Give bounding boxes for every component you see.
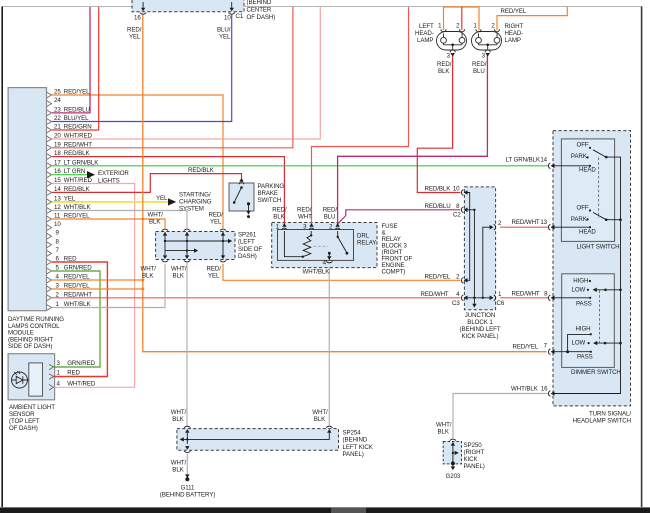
- module pin chevrons 25..1: [47, 92, 52, 310]
- svg-text:BLK: BLK: [273, 214, 285, 221]
- bottom scrollbar thumb: [331, 507, 366, 513]
- left headlamp bulbs: [441, 37, 447, 43]
- ground G111: [185, 474, 189, 478]
- svg-text:RED/BLU: RED/BLU: [425, 203, 451, 210]
- svg-text:WHT/: WHT/: [171, 266, 187, 273]
- junction block C2 pin 8 connector: [461, 207, 467, 213]
- DRL relay switch blade: [337, 236, 339, 238]
- fuse & relay block 3 outer dashed box: [272, 223, 377, 268]
- junction block C2 pin 10 connector: [461, 190, 467, 196]
- svg-text:C3: C3: [452, 300, 460, 307]
- wire RED/WHT module pin 2 to junction block C3 pin 4: [52, 297, 461, 299]
- svg-text:LT GRN: LT GRN: [64, 168, 85, 175]
- dimmer switch inner box: [562, 274, 615, 368]
- svg-text:LAMP: LAMP: [417, 37, 433, 44]
- wire RED/WHT top of page to DRL relay pin 3: [312, 7, 409, 226]
- dimmer pin 16 connector: [548, 391, 554, 397]
- splice SP250 box: [443, 442, 461, 464]
- junction dot RED/YEL at pin 3: [141, 288, 144, 291]
- svg-text:BLK: BLK: [172, 416, 184, 423]
- light switch pin 14 connector: [548, 163, 554, 169]
- svg-text:WHT/RED: WHT/RED: [64, 177, 93, 184]
- svg-text:KICK PANEL): KICK PANEL): [462, 333, 499, 340]
- svg-text:RED/: RED/: [127, 27, 142, 34]
- wire RED module pin 6 to ambient light sensor pin 1: [52, 262, 107, 377]
- left headlamp pin 3 connector: [450, 50, 455, 53]
- wire WHT/BLK DRL relay pin 4 to SP254: [328, 267, 330, 426]
- svg-text:RED/: RED/: [297, 207, 312, 214]
- svg-text:GRN/RED: GRN/RED: [67, 360, 95, 367]
- svg-text:SYSTEM: SYSTEM: [179, 206, 204, 213]
- svg-text:WHT: WHT: [298, 214, 312, 221]
- svg-text:HIGH: HIGH: [573, 278, 588, 285]
- svg-text:RED: RED: [67, 370, 80, 377]
- junction block internal down arrow: [473, 298, 475, 304]
- svg-text:(BEHIND LEFT: (BEHIND LEFT: [459, 326, 500, 333]
- svg-text:PASS: PASS: [576, 301, 592, 308]
- starting/charging system arrow: [168, 198, 176, 205]
- junction block 1 dashed box: [464, 187, 495, 310]
- svg-text:21: 21: [54, 124, 61, 131]
- right headlamp pin 3 connector: [485, 50, 490, 53]
- svg-text:BLU/YEL: BLU/YEL: [64, 115, 89, 122]
- svg-text:13: 13: [54, 195, 61, 202]
- svg-text:STARTING/: STARTING/: [179, 192, 211, 199]
- svg-text:COMPT): COMPT): [382, 269, 406, 276]
- wire RED/YEL module pin 4 joining C1-16 vertical: [52, 279, 143, 281]
- svg-text:BLK: BLK: [142, 273, 154, 280]
- light switch group 1 contacts: [589, 147, 591, 149]
- svg-text:25: 25: [54, 89, 61, 96]
- svg-text:WHT/RED: WHT/RED: [67, 381, 96, 388]
- wire RED/WHT junction block C6 pin 2 to light switch pin 13: [500, 226, 548, 228]
- DRL relay coil circuit: [284, 231, 302, 257]
- svg-text:RED/BLK: RED/BLK: [64, 150, 91, 157]
- wire LT GRN module pin 16 to exterior lights arrow: [52, 174, 87, 176]
- svg-text:RED/: RED/: [472, 61, 487, 68]
- svg-text:RED/BLK: RED/BLK: [425, 186, 452, 193]
- page right border: [641, 7, 643, 508]
- svg-text:DASH): DASH): [238, 253, 257, 260]
- svg-text:OFF: OFF: [577, 142, 589, 149]
- wire RED/YEL module pin 11 to SP261 top pin 1: [52, 219, 165, 228]
- svg-text:18: 18: [54, 150, 61, 157]
- wire RED/WHT junction block C6 pin 1 to dimmer switch pin 8: [500, 297, 548, 299]
- svg-text:11: 11: [54, 213, 61, 220]
- ground G203: [451, 461, 455, 465]
- svg-text:RED/WHT: RED/WHT: [64, 291, 92, 298]
- turn signal / headlamp switch outer dashed box: [553, 131, 631, 406]
- svg-text:RED/: RED/: [323, 207, 338, 214]
- svg-text:C6: C6: [497, 300, 505, 307]
- ambient light sensor inner rectangle: [29, 363, 43, 396]
- svg-text:(BEHIND: (BEHIND: [343, 437, 368, 444]
- svg-text:OF DASH): OF DASH): [9, 425, 38, 432]
- svg-text:RED/: RED/: [437, 61, 452, 68]
- wire RED/YEL connector C1 pin 16 down to dimmer switch pin 7: [143, 15, 547, 352]
- svg-text:BLK: BLK: [172, 467, 184, 474]
- svg-text:PASS: PASS: [577, 354, 593, 361]
- svg-text:WHT/BLK: WHT/BLK: [64, 204, 92, 211]
- svg-text:LEFT KICK: LEFT KICK: [343, 444, 374, 451]
- svg-text:14: 14: [54, 186, 61, 193]
- DRL relay coil zigzag: [303, 235, 311, 256]
- svg-text:RED/YEL: RED/YEL: [64, 213, 90, 220]
- light switch gang dashed line: [598, 158, 600, 219]
- svg-text:YEL: YEL: [156, 195, 168, 202]
- SP261 top pin connectors: [162, 229, 168, 236]
- svg-text:RED/: RED/: [209, 212, 224, 219]
- junction block C3 pin 4 connector: [461, 295, 467, 301]
- junction block internal riser pin10 to pin2: [467, 193, 470, 281]
- wire RED/BLK module pin 14 to parking brake switch: [52, 174, 242, 193]
- DRL relay pin 3 connector: [309, 223, 314, 230]
- dimmer group 2 contacts: [590, 333, 592, 335]
- svg-text:RED/BLU: RED/BLU: [64, 106, 90, 113]
- bottom scrollbar bar: [0, 507, 650, 513]
- svg-text:HEAD-: HEAD-: [415, 30, 434, 37]
- DRL relay actuation dashed link: [314, 245, 329, 247]
- svg-text:12: 12: [54, 204, 61, 211]
- DRL relay pin 1 connector: [282, 223, 287, 230]
- SP261 internal bus B with arrow: [165, 250, 194, 252]
- svg-text:YEL: YEL: [219, 34, 231, 41]
- svg-text:SIDE OF DASH): SIDE OF DASH): [8, 343, 52, 350]
- svg-text:SIDE OF: SIDE OF: [238, 246, 262, 253]
- svg-text:BRAKE: BRAKE: [258, 190, 278, 197]
- svg-text:(BEHIND: (BEHIND: [247, 0, 272, 6]
- svg-text:RED/: RED/: [272, 207, 287, 214]
- svg-text:PANEL): PANEL): [464, 463, 485, 470]
- svg-text:10: 10: [224, 15, 231, 22]
- junction block C6 pin 2 connector: [490, 224, 496, 230]
- left headlamp pin 2 connector: [459, 29, 464, 32]
- splice SP261 box: [156, 232, 235, 260]
- svg-text:24: 24: [54, 97, 61, 104]
- svg-text:LT GRN/BLK: LT GRN/BLK: [506, 157, 541, 164]
- svg-text:20: 20: [54, 133, 61, 140]
- page top border: [2, 6, 642, 8]
- svg-text:RED/YEL: RED/YEL: [501, 8, 527, 15]
- svg-text:OFF: OFF: [577, 205, 589, 212]
- svg-text:(LEFT: (LEFT: [238, 239, 255, 246]
- junction dot RED/YEL at pin 11 crossing: [141, 218, 144, 221]
- connector C1 box (behind center of dash): [132, 0, 244, 12]
- C1 pin 16 connector: [142, 2, 144, 8]
- svg-text:WHT/: WHT/: [141, 266, 157, 273]
- dimmer group 1 contacts: [589, 280, 591, 282]
- DRL relay pin 2 connector: [335, 223, 340, 230]
- left headlamp pin 1 connector: [441, 29, 446, 32]
- wire RED/YEL module pin 3 joining C1-16 vertical: [52, 288, 143, 290]
- wire RED/YEL SP261 bottom pin 3 to junction block C3 pin 2: [223, 264, 461, 281]
- svg-text:CENTER: CENTER: [247, 7, 272, 14]
- svg-text:YEL: YEL: [129, 34, 141, 41]
- svg-text:10: 10: [453, 186, 460, 193]
- wire WHT/RED module pin 15 to ambient light sensor pin 4: [52, 184, 135, 388]
- svg-text:WHT/: WHT/: [148, 212, 164, 219]
- svg-text:(RIGHT: (RIGHT: [464, 449, 485, 456]
- svg-text:PARK: PARK: [571, 153, 588, 160]
- SP254 internal bus with arrow: [184, 433, 330, 440]
- svg-text:YEL: YEL: [210, 219, 222, 226]
- svg-text:HEADLAMP SWITCH: HEADLAMP SWITCH: [573, 418, 631, 425]
- svg-text:14: 14: [540, 157, 547, 164]
- SP254 top pin connectors: [184, 426, 190, 433]
- ambient light sensor pin chevrons: [49, 364, 54, 390]
- svg-text:LT GRN/BLK: LT GRN/BLK: [64, 159, 99, 166]
- svg-text:AMBIENT LIGHT: AMBIENT LIGHT: [9, 404, 55, 411]
- svg-text:C2: C2: [453, 212, 461, 219]
- svg-text:LAMP: LAMP: [505, 37, 521, 44]
- svg-text:23: 23: [54, 106, 61, 113]
- svg-text:YEL: YEL: [208, 273, 220, 280]
- svg-text:G111: G111: [181, 485, 195, 492]
- svg-text:WHT/RED: WHT/RED: [64, 133, 93, 140]
- svg-text:16: 16: [541, 386, 548, 393]
- wire WHT/BLK SP254 to ground G111: [186, 454, 188, 478]
- wire WHT/BLK SP261 bottom pin 2 to SP254: [186, 263, 188, 426]
- right headlamp bulbs: [476, 37, 482, 43]
- svg-text:RED/GRN: RED/GRN: [64, 124, 92, 131]
- svg-text:19: 19: [54, 141, 61, 148]
- wire RED/WHT module pin 19 to top of page: [52, 7, 293, 148]
- wire WHT/BLK module pin 1 to SP261 bottom pin 1: [52, 264, 165, 308]
- daytime running lamps control module box: [8, 88, 46, 311]
- exterior lights arrow: [87, 171, 95, 178]
- wire LT GRN/BLK module pin 17 to light switch pin 14: [52, 165, 548, 167]
- SP261 internal bus A with arrow: [165, 240, 228, 242]
- wire RED/GRN module pin 21 to top of page: [52, 7, 99, 130]
- svg-text:RED/WHT: RED/WHT: [421, 291, 449, 298]
- svg-text:RED/WHT: RED/WHT: [512, 219, 540, 226]
- svg-text:C1: C1: [236, 13, 244, 20]
- light switch group 2 contacts: [589, 209, 591, 211]
- wire RED/YEL module pin 25 to SP261 top pin 3: [52, 95, 223, 228]
- svg-text:BLOCK 1: BLOCK 1: [467, 319, 493, 326]
- SP261 bottom pin connectors: [162, 255, 168, 262]
- svg-text:WHT/BLK: WHT/BLK: [64, 301, 92, 308]
- svg-text:RED/BLK: RED/BLK: [64, 186, 91, 193]
- svg-text:17: 17: [54, 159, 61, 166]
- left headlamp body: [437, 32, 467, 51]
- svg-text:LOW: LOW: [572, 340, 586, 347]
- svg-text:RED/YEL: RED/YEL: [513, 344, 539, 351]
- parking brake switch box: [229, 183, 254, 211]
- svg-text:RED/WHT: RED/WHT: [64, 141, 92, 148]
- wire YEL module pin 13 to starting/charging arrow: [52, 201, 168, 203]
- dimmer pin 8 connector: [548, 295, 554, 301]
- svg-text:GRN/RED: GRN/RED: [64, 265, 92, 272]
- svg-text:PANEL): PANEL): [343, 451, 364, 458]
- SP254 bottom pin connector: [184, 446, 190, 453]
- SP250 internal with arrow: [452, 443, 454, 463]
- svg-text:RED/BLK: RED/BLK: [188, 167, 215, 174]
- svg-text:BLU/: BLU/: [217, 27, 231, 34]
- svg-text:BLK: BLK: [438, 68, 450, 75]
- svg-text:HEAD-: HEAD-: [505, 30, 524, 37]
- svg-text:BLU: BLU: [324, 214, 336, 221]
- svg-text:16: 16: [54, 168, 61, 175]
- svg-text:BLK: BLK: [173, 273, 185, 280]
- svg-text:RED/YEL: RED/YEL: [64, 274, 90, 281]
- svg-text:KICK: KICK: [464, 456, 479, 463]
- svg-text:SP250: SP250: [464, 442, 483, 449]
- junction block C3 pin 2 connector: [461, 278, 467, 284]
- C1 pin 10 connector: [231, 2, 233, 8]
- wire WHT/BLK module pin 12 to SP261 top pin 2: [52, 211, 187, 229]
- svg-text:SP261: SP261: [238, 232, 257, 239]
- ambient light sensor box: [8, 354, 55, 400]
- svg-text:22: 22: [54, 115, 61, 122]
- svg-text:BLK: BLK: [314, 416, 326, 423]
- svg-text:WHT/BLK: WHT/BLK: [511, 386, 539, 393]
- right headlamp pin 1 connector: [476, 29, 481, 32]
- svg-text:SWITCH: SWITCH: [258, 197, 282, 204]
- right headlamp body: [472, 32, 502, 51]
- page left border: [1, 7, 3, 508]
- wire RED/BLU DRL relay pin 2 to junction block C2 pin 8: [338, 210, 461, 224]
- dimmer gang dashed line: [599, 291, 601, 343]
- svg-text:DIMMER SWITCH: DIMMER SWITCH: [571, 369, 621, 376]
- svg-text:BLK: BLK: [438, 429, 450, 436]
- svg-text:BLU: BLU: [473, 68, 485, 75]
- ambient light sensor photodiode: [12, 372, 28, 388]
- svg-text:(BEHIND BATTERY): (BEHIND BATTERY): [160, 492, 216, 499]
- svg-text:16: 16: [134, 15, 141, 22]
- svg-text:15: 15: [54, 177, 61, 184]
- wire RED/BLK left headlamp pin 3 to junction block C2 pin 10: [417, 54, 460, 193]
- svg-text:RELAY: RELAY: [357, 240, 376, 247]
- svg-text:HIGH: HIGH: [576, 326, 591, 333]
- svg-text:CHARGING: CHARGING: [179, 199, 212, 206]
- svg-text:RED/YEL: RED/YEL: [425, 273, 451, 280]
- svg-text:WHT/: WHT/: [312, 409, 328, 416]
- SP261 internal risers: [165, 232, 223, 258]
- svg-text:RED/: RED/: [207, 266, 222, 273]
- svg-text:RED/YEL: RED/YEL: [64, 89, 90, 96]
- DRL relay inner box: [278, 230, 354, 261]
- wire WHT/BLK dimmer switch pin 16 to SP250: [453, 394, 548, 439]
- svg-text:SP254: SP254: [343, 430, 362, 437]
- svg-text:WHT/: WHT/: [171, 409, 187, 416]
- svg-text:G203: G203: [446, 473, 461, 480]
- svg-text:RIGHT: RIGHT: [505, 23, 524, 30]
- parking brake switch blade and contacts: [240, 186, 243, 189]
- svg-text:LEFT: LEFT: [419, 23, 434, 30]
- wire WHT/RED module pin 20 to top of page: [52, 7, 320, 139]
- common return vertical for light and dimmer switches: [554, 157, 621, 393]
- wire GRN/RED module pin 5 to ambient light sensor pin 3: [52, 271, 100, 367]
- parking brake switch ground: [248, 204, 250, 211]
- svg-text:WHT/BLK: WHT/BLK: [303, 269, 331, 276]
- svg-text:BLK: BLK: [149, 219, 161, 226]
- svg-text:TURN SIGNAL/: TURN SIGNAL/: [589, 411, 631, 418]
- wire RED/BLU module pin 23 to top of page: [52, 7, 90, 113]
- junction block C6 pin 1 connector: [490, 295, 496, 301]
- wire RED/YEL right headlamp pin 2 to top of page: [497, 7, 567, 30]
- wire BLU/YEL module pin 22 to connector C1 pin 10: [52, 15, 232, 122]
- svg-text:DRL: DRL: [357, 233, 370, 240]
- svg-text:RED/YEL: RED/YEL: [64, 283, 90, 290]
- DRL relay pin 4 connector: [326, 256, 332, 263]
- svg-text:RED: RED: [64, 256, 77, 263]
- junction block internal bus: [467, 297, 491, 299]
- wire RED/YEL headlamp pins 1 bridge: [444, 7, 480, 30]
- svg-text:WHT/: WHT/: [171, 460, 187, 467]
- svg-text:YEL: YEL: [64, 195, 76, 202]
- svg-text:WHT/: WHT/: [436, 422, 452, 429]
- wire RED left headlamp pin 2 to top of page: [461, 7, 463, 30]
- splice SP254 box: [177, 429, 339, 451]
- parking brake switch pin connector: [239, 178, 243, 182]
- svg-text:(TOP LEFT: (TOP LEFT: [9, 418, 40, 425]
- svg-text:OF DASH): OF DASH): [247, 14, 276, 21]
- svg-text:RED/WHT: RED/WHT: [512, 290, 540, 297]
- junction block internal riser pin8 to bus: [467, 210, 474, 298]
- wire RED/BLU right headlamp pin 3 to DRL relay pin 2: [338, 54, 488, 225]
- dimmer pin 7 connector: [548, 349, 554, 355]
- svg-text:SENSOR: SENSOR: [9, 411, 35, 418]
- svg-text:10: 10: [54, 221, 61, 228]
- svg-text:EXTERIOR: EXTERIOR: [98, 170, 129, 177]
- svg-text:LIGHT SWITCH: LIGHT SWITCH: [577, 244, 620, 251]
- svg-text:LIGHTS: LIGHTS: [98, 178, 120, 185]
- light switch pin 13 connector: [548, 224, 554, 230]
- svg-text:PARKING: PARKING: [258, 183, 285, 190]
- wire RED/BLK module pin 18 to DRL relay pin 1: [52, 157, 284, 226]
- junction block internal riser pin2 C6 to bus: [483, 227, 491, 298]
- SP250 top pin connector: [450, 439, 456, 446]
- svg-text:PARK: PARK: [571, 216, 588, 223]
- junction dot RED/YEL at pin 4: [141, 279, 144, 282]
- svg-text:13: 13: [540, 219, 547, 226]
- light switch inner box: [561, 139, 614, 242]
- svg-text:JUNCTION: JUNCTION: [465, 312, 495, 319]
- svg-text:LOW: LOW: [572, 286, 586, 293]
- svg-text:HEAD: HEAD: [579, 167, 596, 174]
- right headlamp pin 2 connector: [494, 29, 499, 32]
- svg-text:HEAD: HEAD: [579, 229, 596, 236]
